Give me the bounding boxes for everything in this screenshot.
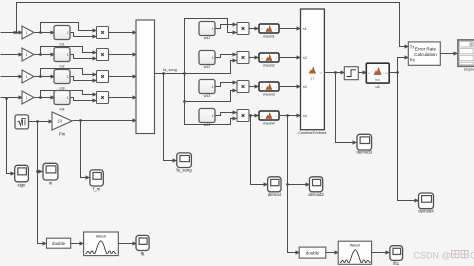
wire input row1 — [1, 32, 23, 34]
product P3 — [97, 71, 109, 83]
wire fa_song to product PM3 in2 — [185, 74, 237, 102]
junction row4 input — [5, 97, 8, 100]
junction m scope tap — [36, 170, 39, 173]
MATLAB function mean4 — [259, 111, 279, 120]
svg-text:Calculation: Calculation — [414, 52, 437, 57]
svg-text:y1: y1 — [385, 71, 388, 75]
junction sqrt out — [36, 120, 39, 123]
MATLAB function mean1 — [259, 24, 279, 33]
junction row1 input — [15, 31, 18, 34]
junction demod2 tap — [286, 114, 289, 117]
wire subsystem m2 to product P2 in2 — [71, 55, 97, 59]
wire mux output fa_song — [155, 73, 185, 75]
Error Rate Calculation block — [408, 42, 440, 65]
wire product P1 to mux — [109, 32, 137, 34]
wire to scope fa_song — [164, 74, 177, 161]
scope demod4 — [419, 193, 434, 209]
wire gain G1 to product P1 in1 — [35, 23, 97, 33]
wire Welch1 to scope fft — [119, 243, 137, 245]
gain G1 (value 1) — [22, 26, 34, 39]
svg-text:1: 1 — [26, 96, 28, 100]
svg-text:m1: m1 — [60, 43, 65, 47]
wire product PM3 to mean3 — [249, 86, 259, 88]
scope fft1 — [390, 246, 403, 261]
wire subsystem m4 to product P4 in2 — [71, 98, 97, 101]
product P1 — [97, 27, 109, 39]
junction gain G4 out — [39, 96, 42, 99]
scope sign — [15, 165, 29, 182]
svg-text:m: m — [49, 181, 53, 186]
svg-text:w14: w14 — [204, 123, 211, 127]
wire mean3 to CombineToVector s3 — [279, 86, 301, 88]
wire gain G1 to subsystem m1 — [41, 32, 55, 34]
Display block — [458, 40, 474, 66]
wire mean4 branch to double2 — [288, 116, 300, 253]
scope demod3 — [357, 134, 372, 150]
svg-text:y 1: y 1 — [310, 77, 314, 81]
svg-text:f_m: f_m — [93, 187, 101, 192]
svg-text:Pin: Pin — [59, 132, 66, 137]
svg-text:1: 1 — [26, 31, 28, 35]
sqrt block — [15, 115, 29, 129]
gain G3 (value 1) — [22, 70, 34, 83]
spectrum analyzer Welch2 — [338, 241, 371, 264]
scope fft — [136, 235, 149, 250]
svg-text:fft1: fft1 — [393, 261, 400, 266]
MATLAB function mean2 — [259, 53, 279, 62]
wire sqrt to gain Pin — [29, 121, 53, 123]
subsystem w14 — [199, 109, 215, 123]
subsystem m4 — [54, 91, 70, 105]
wire fa_song to product PM2 in2 — [185, 61, 237, 74]
watermark CSDN — [414, 251, 474, 261]
scope f_m — [90, 170, 103, 186]
svg-text:10: 10 — [57, 119, 62, 124]
svg-text:u1: u1 — [375, 84, 380, 89]
wire product P4 to mux — [109, 97, 137, 99]
svg-text:fa_song: fa_song — [176, 168, 192, 173]
wire mean4 to CombineToVector s4 — [279, 115, 301, 117]
wire product PM1 to mean1 — [249, 28, 259, 30]
wire product PM2 to mean2 — [249, 57, 259, 59]
svg-text:w12: w12 — [204, 65, 211, 69]
wire gain G4 to product P4 in1 — [35, 91, 97, 98]
product PM3 — [237, 81, 249, 93]
wire product P2 to mux — [109, 54, 137, 56]
subsystem m1 — [54, 26, 70, 40]
svg-text:s1: s1 — [303, 27, 307, 31]
wire subsystem m1 to product P1 in2 — [71, 33, 97, 37]
wire row4 branch to scope sign — [7, 99, 15, 174]
product PM4 — [237, 110, 249, 122]
svg-text:mean4: mean4 — [263, 121, 275, 125]
wire gain G2 to subsystem m2 — [41, 54, 55, 56]
svg-text:1: 1 — [26, 75, 28, 79]
wire relay to fcn u1 — [359, 72, 367, 74]
junction fa_song row3 — [183, 100, 186, 103]
mux — [136, 20, 155, 134]
svg-text:fa_song: fa_song — [163, 68, 177, 72]
svg-text:double: double — [52, 241, 66, 246]
svg-text:Rx: Rx — [410, 57, 416, 62]
relay block — [344, 67, 358, 80]
junction gain G3 out — [39, 75, 42, 78]
svg-text:CSDN @: CSDN @ — [414, 251, 451, 261]
svg-text:mean2: mean2 — [263, 63, 275, 67]
wire subsystem m3 to product P3 in2 — [71, 77, 97, 81]
junction row1 input b — [13, 31, 16, 34]
subsystem w12 — [199, 51, 215, 65]
svg-text:mean3: mean3 — [263, 92, 275, 96]
wire input row2 — [1, 54, 23, 56]
svg-text:double: double — [306, 251, 320, 256]
wire w11 to product PM1 in1 — [215, 25, 237, 29]
subsystem m2 — [54, 48, 70, 62]
junction demod3 tap — [334, 71, 337, 74]
junction fcn out — [396, 71, 399, 74]
wire gain G2 to product P2 in1 — [35, 47, 97, 55]
subsystem m3 — [54, 70, 70, 84]
wire mean1 to CombineToVector s1 — [279, 28, 301, 30]
wire fcn branch to scope demod4 — [398, 73, 419, 201]
svg-text:1: 1 — [26, 53, 28, 57]
svg-text:demod2: demod2 — [308, 192, 324, 197]
MATLAB function u1 — [366, 63, 389, 83]
wire fa_song to product PM1 in2 — [185, 19, 237, 74]
svg-text:fcn: fcn — [375, 78, 380, 82]
wire fa_song to product PM4 in2 — [185, 102, 237, 125]
wire double1 to Welch1 — [71, 243, 84, 245]
svg-text:C8: C8 — [470, 251, 474, 261]
scope fa_song — [177, 153, 192, 168]
svg-text:s2: s2 — [303, 56, 307, 60]
product PM1 — [237, 23, 249, 35]
wire to scope demod2 — [288, 184, 310, 186]
wire gain G3 to subsystem m3 — [41, 76, 55, 78]
svg-text:sign: sign — [18, 183, 26, 188]
wire input row3 — [1, 76, 23, 78]
svg-text:s4: s4 — [303, 114, 307, 118]
wire sqrt branch to double1 — [38, 122, 47, 244]
svg-text:demod4: demod4 — [418, 209, 434, 214]
junction gain G1 out — [39, 31, 42, 34]
wire Pin branch to scope f_m — [81, 121, 90, 178]
junction gain G2 out — [39, 53, 42, 56]
wire Welch2 to scope fft1 — [372, 252, 390, 254]
svg-text:Welch: Welch — [96, 235, 106, 239]
scope m — [43, 163, 58, 180]
data type conversion double2 — [299, 247, 326, 258]
wire w12 to product PM2 in1 — [215, 55, 237, 58]
junction Pin out — [79, 119, 82, 122]
MATLAB function mean3 — [259, 82, 279, 91]
wire tap to scope m — [38, 171, 43, 173]
subsystem w11 — [199, 22, 215, 36]
spectrum analyzer Welch1 — [84, 232, 119, 256]
scope demod2 — [309, 177, 322, 192]
junction fa_song scope tap — [162, 72, 165, 75]
product PM2 — [237, 52, 249, 64]
wire gain G3 to product P3 in1 — [35, 69, 97, 77]
svg-text:CombineToVector: CombineToVector — [298, 131, 327, 135]
svg-text:w13: w13 — [204, 94, 211, 98]
wire input row4 — [1, 97, 23, 99]
wire Error Rate to Display — [441, 53, 458, 55]
wire gain Pin to mux — [73, 120, 137, 122]
svg-text:m2: m2 — [60, 65, 65, 69]
svg-text:demod: demod — [268, 192, 282, 197]
svg-text:Welch: Welch — [350, 244, 360, 248]
junction demod tap — [249, 114, 252, 117]
wire double2 to Welch2 — [326, 252, 339, 254]
svg-text:mean1: mean1 — [263, 34, 275, 38]
scope demod — [268, 177, 281, 192]
gain G2 (value 1) — [22, 48, 34, 61]
wire to scope demod3 — [336, 73, 357, 143]
gain Pin (value 10) — [52, 112, 72, 130]
wire mean2 to CombineToVector s2 — [279, 57, 301, 59]
product P4 — [97, 92, 109, 104]
svg-text:Display: Display — [464, 68, 474, 72]
wire gain G4 to subsystem m4 — [41, 97, 55, 99]
wire w14 to product PM4 in1 — [215, 113, 237, 116]
svg-text:s3: s3 — [303, 85, 307, 89]
wire w13 to product PM3 in1 — [215, 83, 237, 87]
wire fcn u1 to Error Rate Rx — [390, 58, 409, 73]
junction fa_song distribution — [183, 72, 186, 75]
wire CombineToVector to relay — [325, 72, 345, 74]
wire product PM4 to mean4 — [249, 115, 259, 117]
svg-text:m4: m4 — [60, 108, 65, 112]
svg-text:demod3: demod3 — [357, 150, 373, 155]
wire product P3 to mux — [109, 76, 137, 78]
wire source to Error Rate Tx — [17, 3, 409, 47]
wire product PM4 branch to scope demod — [251, 116, 268, 185]
gain G4 (value 1) — [22, 91, 34, 104]
junction demod2 tap2 — [286, 183, 289, 186]
product P2 — [97, 49, 109, 61]
MATLAB function CombineToVector — [301, 9, 325, 130]
subsystem w13 — [199, 80, 215, 94]
svg-text:w11: w11 — [204, 36, 210, 40]
data type conversion double1 — [47, 238, 71, 248]
